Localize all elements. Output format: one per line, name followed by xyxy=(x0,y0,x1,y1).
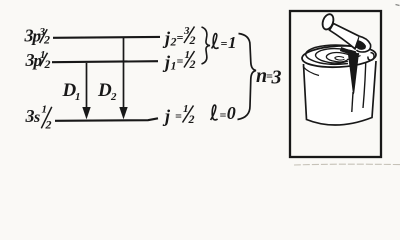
heavy shadow band under curl xyxy=(341,49,359,56)
svg-text:2: 2 xyxy=(110,91,117,103)
label j1=1/2 xyxy=(162,49,196,73)
label l=1 xyxy=(212,33,237,52)
svg-text:2: 2 xyxy=(189,57,196,71)
can rim second line xyxy=(303,67,319,76)
faint smudge left xyxy=(28,117,31,121)
label D1 xyxy=(62,80,81,103)
svg-text:=: = xyxy=(175,109,182,123)
svg-text:=: = xyxy=(177,54,184,68)
dark wedge shadow xyxy=(348,53,359,94)
lid corner hook xyxy=(368,53,374,61)
svg-text:0: 0 xyxy=(227,103,236,123)
svg-text:D: D xyxy=(97,80,112,101)
label j2=3/2 xyxy=(162,25,196,48)
svg-text:3: 3 xyxy=(271,67,282,89)
picture frame xyxy=(290,11,381,157)
svg-text:2: 2 xyxy=(43,33,50,47)
label j=1/2 xyxy=(162,103,195,126)
svg-text:2: 2 xyxy=(170,35,177,49)
wedge tail line xyxy=(352,92,353,112)
curl dark crescent xyxy=(356,40,366,50)
can body xyxy=(304,61,377,125)
key handle knob xyxy=(321,13,336,31)
label n=3 xyxy=(256,65,282,89)
level line 3p3/2 xyxy=(53,36,160,39)
transition D1 arrow xyxy=(82,63,90,119)
label 3s1/2 xyxy=(25,103,52,131)
faint scan line below frame xyxy=(294,163,400,166)
svg-text:2: 2 xyxy=(188,112,195,126)
svg-text:1: 1 xyxy=(228,33,237,52)
big brace n=3 xyxy=(238,34,257,120)
rolled lid curl xyxy=(357,36,371,52)
svg-text:3: 3 xyxy=(25,106,35,126)
svg-text:s: s xyxy=(33,109,40,126)
svg-text:=: = xyxy=(221,37,228,51)
key handle shaft xyxy=(330,24,360,49)
level line 3p1/2 xyxy=(52,61,158,62)
svg-text:=: = xyxy=(177,31,184,45)
label 3p1/2 xyxy=(25,49,51,71)
label D2 xyxy=(97,80,117,103)
lid fold line on body xyxy=(363,52,366,108)
label l=0 xyxy=(211,103,236,123)
svg-text:2: 2 xyxy=(189,33,196,47)
stray scan tick top right xyxy=(396,5,400,6)
svg-text:1: 1 xyxy=(42,103,48,115)
label 3p3/2 xyxy=(24,26,51,47)
brace l=1 xyxy=(202,27,211,64)
svg-text:=: = xyxy=(220,108,227,122)
can top ellipse xyxy=(302,44,377,69)
transition D2 arrow xyxy=(119,38,127,119)
level line 3s1/2 xyxy=(55,118,158,121)
lid spiral xyxy=(306,45,362,64)
svg-text:1: 1 xyxy=(75,91,81,103)
svg-text:2: 2 xyxy=(45,117,52,131)
svg-text:2: 2 xyxy=(44,57,51,71)
